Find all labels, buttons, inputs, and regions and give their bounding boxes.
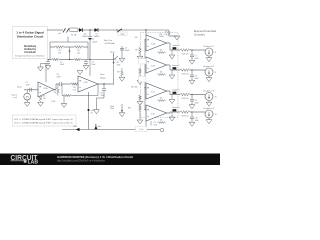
svg-text:http://circuitlab.com/c/29u42e: http://circuitlab.com/c/29u42e/1-to-4-di… xyxy=(57,158,105,162)
svg-text:Input: Input xyxy=(17,86,22,89)
svg-text:Stage: Stage xyxy=(100,76,106,79)
svg-text:IC1 = OPA2134PA quad FET input: IC1 = OPA2134PA quad FET input op amp IC xyxy=(14,118,74,121)
svg-text:R15 100: R15 100 xyxy=(182,115,189,117)
svg-text:1N4001: 1N4001 xyxy=(94,36,100,38)
svg-text:R9: R9 xyxy=(135,49,137,51)
svg-text:10k: 10k xyxy=(160,120,163,122)
svg-text:10k: 10k xyxy=(160,72,163,74)
svg-text:Jumper 1: Jumper 1 xyxy=(172,45,180,47)
svg-text:SW2: SW2 xyxy=(121,34,125,36)
svg-text:Output 3: Output 3 xyxy=(203,89,215,92)
svg-text:~45-280mA: ~45-280mA xyxy=(104,42,115,45)
svg-text:IC2 = OPA2134PA quad FET input: IC2 = OPA2134PA quad FET input op amp IC xyxy=(14,122,74,125)
svg-text:Output 4: Output 4 xyxy=(203,107,215,110)
svg-text:CircuitLab: CircuitLab xyxy=(24,51,36,54)
svg-text:R8: R8 xyxy=(117,71,119,73)
svg-text:jack: jack xyxy=(13,97,17,99)
svg-text:Bass: Bass xyxy=(110,52,114,54)
svg-text:HARRISON MCINTEE (Kurious) | 1: HARRISON MCINTEE (Kurious) | 1 To 4 Dist… xyxy=(57,155,133,159)
svg-text:J4: J4 xyxy=(215,114,217,116)
svg-text:1N4001: 1N4001 xyxy=(82,36,88,38)
svg-text:Jumper 2: Jumper 2 xyxy=(172,65,180,67)
svg-text:100uF: 100uF xyxy=(92,42,98,44)
svg-text:+5mV: +5mV xyxy=(97,126,103,128)
svg-text:10k: 10k xyxy=(160,50,163,52)
svg-text:Distribution Circuit: Distribution Circuit xyxy=(17,34,44,38)
svg-text:Max Curr: Max Curr xyxy=(104,40,113,42)
svg-text:100k: 100k xyxy=(117,64,121,66)
svg-text:Experimental: Experimental xyxy=(194,29,217,33)
svg-text:10k: 10k xyxy=(160,98,163,100)
svg-text:F1 1A: F1 1A xyxy=(71,33,77,36)
svg-text:J3: J3 xyxy=(215,97,217,99)
svg-text:100nF: 100nF xyxy=(125,50,131,52)
svg-text:R13 100: R13 100 xyxy=(182,73,189,75)
svg-text:Circuitry: Circuitry xyxy=(194,33,206,37)
svg-text:R14 100: R14 100 xyxy=(182,98,189,100)
svg-text:10k: 10k xyxy=(135,37,138,39)
svg-text:10k: 10k xyxy=(164,34,167,36)
svg-text:10k: 10k xyxy=(58,53,61,55)
svg-text:J2: J2 xyxy=(215,72,217,74)
svg-text:Output 2: Output 2 xyxy=(203,65,215,68)
svg-text:Output 1: Output 1 xyxy=(203,45,215,48)
svg-text:10k: 10k xyxy=(77,53,80,55)
svg-text:Design by Harrison McIntee: Design by Harrison McIntee xyxy=(15,55,45,58)
svg-text:R11: R11 xyxy=(128,107,131,109)
svg-text:10uF: 10uF xyxy=(154,124,158,126)
svg-text:R12 100: R12 100 xyxy=(182,53,189,55)
svg-text:J1: J1 xyxy=(215,52,217,54)
svg-text:sw1: sw1 xyxy=(58,33,61,35)
svg-text:LAB: LAB xyxy=(28,160,39,165)
svg-text:GND: GND xyxy=(73,126,78,128)
svg-text:Jumper 4: Jumper 4 xyxy=(172,107,180,109)
svg-text:4.7k: 4.7k xyxy=(73,89,76,91)
svg-text:Jumper 3: Jumper 3 xyxy=(172,89,180,91)
svg-text:R10 10k: R10 10k xyxy=(131,87,138,89)
svg-text:V ref: V ref xyxy=(139,129,143,131)
svg-text:100nF: 100nF xyxy=(159,36,164,38)
